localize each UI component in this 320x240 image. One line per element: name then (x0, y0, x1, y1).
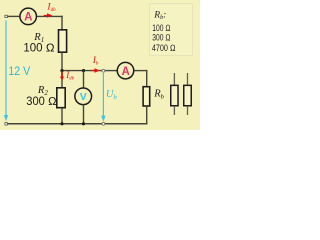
spare resistor 1 (171, 85, 178, 105)
current arrow I_db (44, 13, 53, 17)
wire node b to ammeter 2 (103, 70, 118, 72)
node junction V top (82, 69, 85, 72)
info box Rb values (150, 4, 193, 55)
terminal bottom left (5, 123, 7, 125)
ammeter U2 A (117, 62, 134, 79)
wire right corner down to Rb (146, 70, 148, 87)
wire V top lead (83, 71, 85, 88)
svg-text:300 Ω: 300 Ω (152, 33, 170, 43)
spare resistor lead bottom 2 (187, 106, 189, 115)
wire R1 bottom to node (61, 53, 63, 71)
svg-text:A: A (24, 12, 32, 24)
node junction at R2 top (60, 69, 63, 72)
current arrow I_s'b down (60, 72, 64, 81)
terminal top left (5, 15, 7, 17)
wire V bottom lead (83, 105, 85, 124)
node b' open bottom (102, 122, 105, 125)
node b open (102, 69, 105, 72)
current arrow I_b (91, 68, 100, 72)
resistor R1 (59, 30, 67, 52)
resistor Rb (143, 87, 150, 106)
wire ammeter 2 to right corner (133, 70, 147, 72)
svg-text:300 Ω: 300 Ω (26, 96, 56, 108)
spare resistor lead top 2 (187, 73, 189, 86)
spare resistor lead bottom 1 (173, 106, 175, 115)
voltage arrow U_b cyan (102, 73, 104, 117)
wire right drop to R1 (61, 16, 63, 30)
spare resistor 2 (184, 85, 192, 105)
wire node down to R2 (61, 71, 63, 88)
node junction R2 bottom (60, 122, 63, 125)
wire top rail right segment (36, 15, 63, 17)
svg-text:100 Ω: 100 Ω (23, 43, 54, 55)
spare resistor lead top 1 (173, 73, 175, 86)
wire Rb bottom to rail (146, 106, 148, 124)
resistor R2 (57, 88, 65, 108)
ammeter U1 A (20, 8, 37, 25)
source voltage arrow 12V cyan (5, 20, 7, 116)
svg-text:V: V (80, 91, 87, 103)
node junction V bottom (82, 122, 85, 125)
wire middle rail (62, 70, 103, 72)
svg-text:12 V: 12 V (8, 66, 30, 78)
svg-text:A: A (121, 66, 129, 78)
svg-text:Rb:: Rb: (153, 10, 166, 21)
voltmeter V (75, 88, 92, 105)
wire R2 bottom to bottom rail (61, 108, 63, 124)
wire top rail left segment (7, 15, 21, 17)
bottom rail wire (7, 123, 147, 125)
svg-text:4700 Ω: 4700 Ω (152, 43, 176, 53)
svg-text:100 Ω: 100 Ω (152, 23, 170, 33)
